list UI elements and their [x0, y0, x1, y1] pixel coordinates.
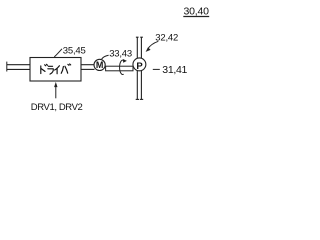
left pipe double line: [7, 65, 30, 70]
driver box label (katakana doraiba): [41, 64, 71, 74]
svg-text:30,40: 30,40: [184, 6, 210, 18]
motor M circle: [94, 59, 105, 70]
pump P circle: [133, 58, 146, 71]
svg-text:31,41: 31,41: [162, 64, 187, 76]
leader 35,45: [54, 49, 62, 57]
svg-text:35,45: 35,45: [63, 45, 86, 56]
leader dash 31,41: [153, 68, 160, 70]
shaft motor to pump: [106, 66, 133, 71]
svg-text:33,43: 33,43: [109, 49, 132, 60]
left pipe flange: [6, 62, 8, 72]
driver box: [30, 58, 81, 82]
vertical pipe upper double line with top caps: [136, 37, 144, 99]
svg-text:M: M: [96, 60, 104, 70]
svg-text:P: P: [136, 61, 143, 72]
arrow into box bottom: [55, 86, 57, 99]
leader 33,43: [102, 55, 109, 59]
svg-text:DRV1, DRV2: DRV1, DRV2: [31, 102, 83, 113]
pipe box to motor: [81, 65, 95, 70]
svg-text:32,42: 32,42: [155, 32, 178, 43]
rotation arrow on shaft: [120, 60, 124, 74]
leader arrow 32,42: [148, 41, 159, 49]
